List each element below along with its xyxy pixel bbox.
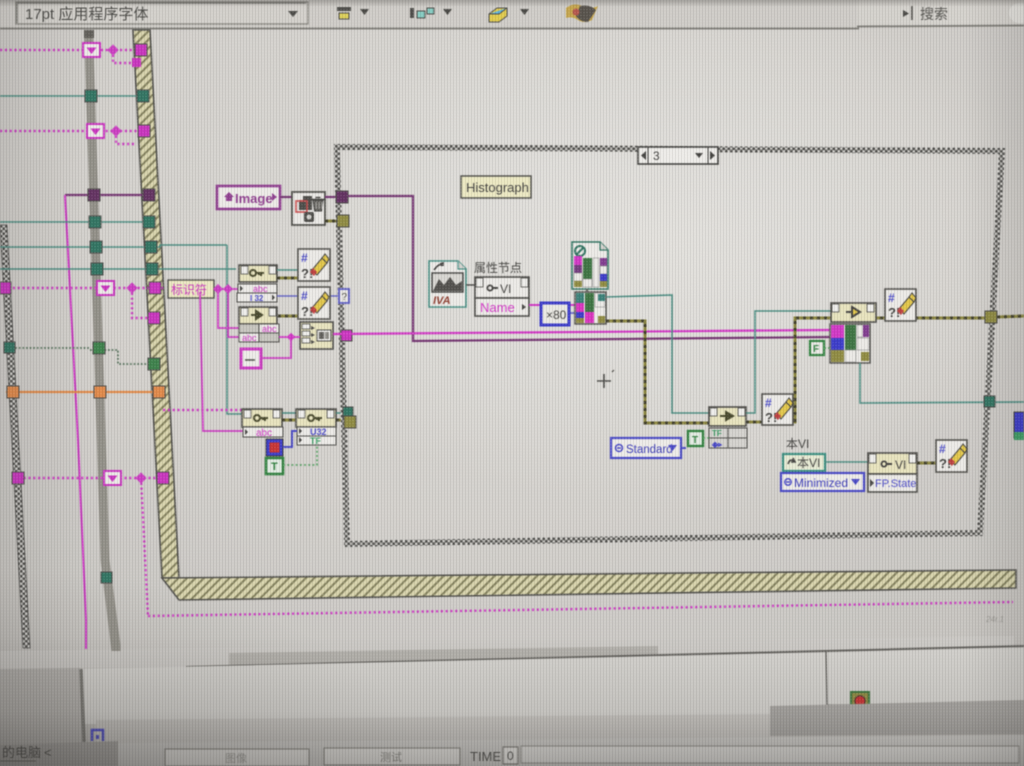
- #?! icon 2: [298, 287, 330, 319]
- search arrow icon: [903, 10, 909, 17]
- node5 TF row: [297, 436, 336, 445]
- 标识符 wire label: [168, 280, 214, 298]
- teal tunnel hatch y247: [145, 241, 157, 253]
- W3 junction: [126, 282, 137, 293]
- teal wire node5 to frame: [336, 412, 347, 414]
- teal tunnel on hatch y96: [137, 90, 149, 102]
- khaki stub node1 to err1: [277, 277, 298, 280]
- W2 tunnel on hatch: [138, 125, 150, 137]
- teal wire big icon down right: [860, 363, 1024, 403]
- table cell 1: [165, 749, 309, 766]
- property node Name row: [475, 298, 529, 316]
- align objects icon: [337, 7, 369, 19]
- case selector label: [638, 147, 718, 164]
- registry node5: [296, 409, 336, 427]
- scrollbar thumb: [229, 646, 658, 668]
- teal wire node4-node5: [282, 412, 297, 414]
- W4 tunnel hatch: [157, 472, 169, 484]
- W2 scrollbar box: [87, 124, 104, 138]
- W4 riser down: [141, 478, 148, 616]
- node5 U32 row: [297, 427, 336, 436]
- node1 abc row: [238, 284, 277, 293]
- tunnel on hatch y364: [148, 358, 160, 370]
- W2 branch stub: [116, 131, 136, 144]
- left desktop area below diagram: [0, 655, 84, 745]
- wire dispose to frame tunnel: [325, 196, 338, 198]
- teal wire y269: [0, 268, 236, 270]
- tunnel on bar y348: [93, 342, 105, 354]
- branch to node2 abc row1: [218, 289, 259, 328]
- Histograph label: [461, 176, 531, 198]
- khaki error bus from icon2: [606, 321, 710, 423]
- outer case hatched left border: [133, 30, 179, 578]
- W3 tunnel on hatch y288: [149, 282, 161, 294]
- node4 abc row: [243, 427, 283, 437]
- teal stub node1 to err1: [277, 269, 298, 271]
- tunnel on checker y348: [4, 342, 15, 353]
- W1 junction: [107, 44, 118, 55]
- colorbox constant blue/red: [266, 439, 283, 456]
- front panel left edge: [81, 669, 84, 742]
- teal wire y96: [0, 95, 142, 97]
- tunnel teal y413 on left border: [343, 407, 353, 417]
- W4 tunnel checker: [12, 472, 24, 484]
- branch to node2 abc row2: [228, 289, 239, 337]
- tunnel olive y420 on left border: [344, 416, 356, 428]
- 本VI constant: [783, 454, 825, 471]
- teal tunnel hatch y222: [143, 216, 155, 228]
- node2 grid row1: [239, 324, 259, 333]
- magenta dotted into node4 key: [163, 409, 243, 411]
- tunnel violet (Image) on left border: [336, 191, 348, 203]
- wire W1 magenta dotted y50: [0, 49, 137, 52]
- green dotted wire T to TF: [283, 445, 317, 465]
- registry node2 read value: [239, 307, 277, 324]
- W4 scrollbar box: [104, 471, 121, 485]
- partial icon right edge: [1014, 412, 1024, 438]
- blue I32 wire to border: [277, 295, 340, 297]
- wire W2 magenta dotted y131: [0, 130, 139, 133]
- W2 junction: [110, 125, 121, 136]
- cursor crosshair: [597, 374, 611, 388]
- Standard ring constant: [611, 438, 681, 458]
- wire 本VI to VI node: [825, 461, 868, 463]
- taskbar left dark: [0, 741, 118, 766]
- wire stub in front panel: [826, 651, 852, 705]
- khaki wire node5 to frame: [336, 419, 348, 422]
- move/arrow node top: [831, 303, 876, 322]
- orange tunnel bar: [94, 386, 106, 398]
- teal tunnel hatch y269: [146, 263, 158, 275]
- dark dotted wire y348: [8, 347, 90, 349]
- #?! icon 3: [762, 394, 793, 425]
- IVA vi icon: [429, 261, 466, 307]
- magenta wire from label to node1 abc: [214, 288, 238, 290]
- violet tunnel on hatch: [143, 189, 155, 201]
- distribute objects icon: [410, 8, 452, 18]
- long bottom magenta dotted wire: [148, 602, 1013, 616]
- band under front panel right darker: [770, 700, 1024, 736]
- blue ? coercion box on border: [339, 289, 349, 303]
- outer case hatched bottom border: [162, 570, 1016, 600]
- violet tunnel on bar: [88, 189, 100, 201]
- bottom front panel row: [118, 735, 1024, 766]
- table cell 2: [324, 748, 460, 765]
- T boolean constant: [266, 458, 283, 474]
- olive tunnel right border: [997, 316, 1024, 317]
- wire W3 magenta dotted y288: [8, 287, 163, 290]
- VI property node row1: [868, 453, 917, 474]
- W1 branch stub: [113, 50, 133, 63]
- teal tunnel bar y247: [90, 241, 102, 253]
- W1 scrollbar box: [83, 43, 100, 57]
- junction diamond 1: [213, 284, 223, 294]
- teal wire y222: [0, 221, 148, 223]
- magenta riser from y195 to bottom window edge: [65, 195, 86, 649]
- magenta empty string constant: [241, 349, 261, 368]
- magenta riser to node4 abc: [200, 292, 243, 431]
- glare blob top right: [1009, 3, 1024, 23]
- teal tunnel on bar y96: [85, 90, 97, 102]
- teal wire y247: [0, 245, 227, 247]
- colorbox icon lower: [575, 292, 606, 324]
- toolbar bottom edge: [0, 26, 1024, 29]
- khaki wire VI node to err5: [917, 462, 936, 465]
- node2 grid row2: [239, 333, 259, 342]
- gray bar top cap: [84, 30, 94, 38]
- band under front panel left part: [96, 714, 770, 744]
- while loop checker border left: [0, 225, 30, 648]
- W3 scrollbar box: [97, 281, 114, 295]
- violet image wire inside frame: [348, 196, 830, 341]
- registry node1 open key: [239, 265, 277, 282]
- khaki stub node2 to err2: [278, 315, 298, 318]
- cluster rows grid: [709, 428, 747, 449]
- tunnel olive (error) on left border: [337, 215, 349, 227]
- magenta wavy Name to icon: [529, 304, 576, 306]
- T constant: [688, 431, 703, 446]
- #?! icon 1: [298, 249, 330, 281]
- stop LED icon: [851, 692, 869, 710]
- scrollbar band of diagram window: [0, 636, 1014, 669]
- wire standard to node: [681, 447, 686, 449]
- teal tunnel bar y269: [91, 263, 103, 275]
- Image control reference: [217, 186, 280, 209]
- teal riser x227: [227, 245, 243, 414]
- W1 stub tunnel: [132, 58, 141, 67]
- link icons: [586, 289, 588, 293]
- node1 I32 row: [237, 293, 277, 302]
- wire Image to dispose: [280, 196, 292, 198]
- property node row1: [475, 277, 529, 298]
- orange tunnel hatch: [153, 386, 165, 398]
- F constant: [810, 341, 824, 355]
- gray structure bar: [84, 30, 121, 651]
- khaki wire node4-node5: [282, 419, 297, 422]
- IMAQ dispose icon: [292, 192, 325, 225]
- TIME value box: [503, 747, 518, 764]
- teal wire node right up to move node: [746, 311, 831, 413]
- reorder icon: [566, 4, 598, 22]
- registry node4: [242, 409, 282, 427]
- resize objects icon: [489, 8, 529, 22]
- tunnel magenta y335: [341, 330, 352, 341]
- junction diamond 2: [223, 284, 233, 294]
- violet wire y195: [65, 194, 148, 196]
- bright magenta wire inside frame: [333, 330, 830, 334]
- khaki error stub dispose: [325, 220, 339, 223]
- wire from empty constant up to y337 bus: [261, 337, 291, 358]
- W3 branch down to hatch tunnel: [132, 288, 150, 318]
- W4 junction: [135, 472, 146, 483]
- magenta y337 bus node2-node3: [279, 336, 300, 338]
- W3 branch tunnel: [148, 312, 160, 324]
- teal wire icon2 right: [606, 295, 709, 413]
- #?! icon 4: [885, 289, 916, 321]
- blue wire const to U32: [283, 431, 297, 447]
- long value box: [521, 746, 1019, 763]
- teal tunnel right border: [984, 396, 995, 407]
- W3 tunnel on checker: [0, 282, 11, 294]
- teal tunnel bar y222: [89, 216, 101, 228]
- concat strings node3: [300, 322, 333, 349]
- orange wire y392: [6, 391, 162, 393]
- font combo box: [16, 2, 308, 24]
- x80 constant: [541, 303, 569, 325]
- toolbar background: [0, 0, 1024, 28]
- Minimized ring: [781, 473, 864, 491]
- colorbox icon upper (disabled): [572, 242, 608, 289]
- W1 tunnel on hatch: [135, 44, 147, 56]
- FP.State row: [868, 474, 917, 492]
- inner case structure border (checkered quad): [337, 147, 1002, 544]
- big colorbox icon: [830, 324, 870, 363]
- write key node (arrow): [709, 407, 746, 426]
- orange tunnel checker: [7, 386, 19, 398]
- wire IVA to property node: [466, 284, 475, 286]
- blue bracket icon: [92, 730, 103, 741]
- #?! icon 5: [936, 440, 967, 472]
- front panel window area: [80, 648, 1024, 724]
- teal square on bar at hatch crossing: [101, 572, 112, 583]
- wire W4 magenta dotted y478: [14, 477, 165, 480]
- window bottom edge line: [186, 646, 1024, 667]
